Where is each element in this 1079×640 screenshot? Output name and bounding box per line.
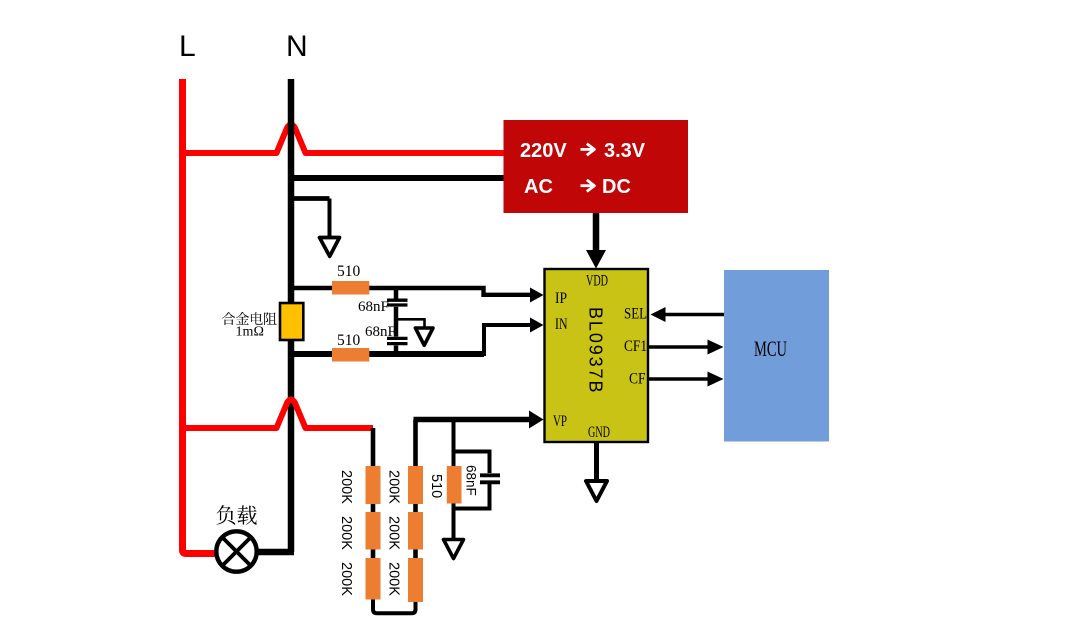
MCU box (724, 270, 829, 442)
capacitor C3 68nF plates (480, 475, 500, 482)
arrow CF1 chip to MCU (649, 345, 709, 349)
arrow into IP (530, 288, 544, 303)
shunt resistor alloy 1mOhm (280, 303, 303, 340)
wire black from load to N (257, 549, 294, 556)
arrow into IN (530, 318, 544, 333)
wire filter ground stub (396, 319, 425, 327)
svg-text:L: L (179, 30, 196, 63)
svg-text:IP: IP (555, 290, 567, 307)
label alloy resistor (hand glyphs) (222, 312, 277, 325)
svg-text:200K: 200K (338, 470, 354, 504)
wire red top horizontal L to AC-DC box with hop over N (180, 125, 504, 154)
svg-text:CF: CF (629, 371, 646, 388)
svg-text:200K: 200K (338, 516, 354, 550)
wire black N to AC-DC box (291, 175, 504, 181)
svg-text:510: 510 (428, 474, 444, 498)
capacitor C1 68nF plates (387, 300, 408, 305)
svg-text:VDD: VDD (586, 273, 608, 290)
svg-text:MCU: MCU (754, 336, 787, 361)
svg-text:510: 510 (337, 332, 361, 349)
svg-text:VP: VP (553, 413, 567, 430)
svg-text:68nF: 68nF (464, 465, 479, 496)
svg-text:DC: DC (602, 176, 631, 198)
svg-text:N: N (286, 30, 308, 63)
svg-text:CF1: CF1 (624, 338, 647, 355)
wire IN branch from N through R2 (291, 351, 484, 357)
wire filter vertical with caps junction (394, 288, 399, 299)
load lamp symbol (216, 531, 256, 571)
wire 510 branch vertical (452, 420, 456, 467)
svg-text:IN: IN (555, 316, 568, 333)
wire IN step up to chip (484, 325, 531, 356)
ground at filter (415, 328, 433, 345)
resistor R4 200K (366, 512, 381, 550)
arrow CF chip to MCU (649, 377, 709, 381)
svg-text:SEL: SEL (624, 306, 647, 323)
wire bottom U connecting chains (373, 595, 416, 613)
ground at N stub (320, 238, 340, 257)
arrow VDD supply (593, 213, 600, 252)
svg-text:200K: 200K (386, 516, 402, 550)
wire N ground stub (293, 196, 330, 201)
chip BL0937B (545, 269, 649, 442)
svg-text:220V: 220V (520, 140, 567, 162)
ground at chip GND (586, 481, 607, 501)
wire 510 to ground (452, 503, 456, 539)
wire L line red vertical with bottom bend to load (183, 79, 217, 554)
svg-text:510: 510 (337, 263, 361, 280)
wire VP line (414, 417, 531, 422)
wire GND below chip (594, 442, 599, 480)
wire IP branch from N through R1 to chip (291, 288, 531, 295)
resistor R1 510 (332, 281, 369, 295)
capacitor C2 68nF plates (387, 338, 408, 343)
wire cap 68nF branch (454, 452, 490, 509)
resistor R5 200K (366, 558, 381, 600)
svg-text:3.3V: 3.3V (604, 140, 646, 162)
svg-text:200K: 200K (386, 562, 402, 596)
svg-text:68nF: 68nF (365, 324, 396, 340)
wire N line black vertical (288, 79, 295, 552)
svg-text:1mΩ: 1mΩ (236, 325, 265, 340)
resistor R9 510 vertical (447, 466, 462, 504)
AC-DC converter box (504, 120, 689, 213)
svg-text:200K: 200K (338, 562, 354, 596)
arrow into VP (529, 411, 544, 429)
resistor R6 200K (408, 466, 423, 504)
svg-text:68nF: 68nF (358, 299, 389, 315)
wire left 200K chain vertical (371, 428, 376, 597)
wire right 200K chain vertical (413, 420, 418, 601)
svg-text:GND: GND (588, 424, 610, 441)
svg-text:AC: AC (524, 176, 553, 198)
resistor R2 510 (332, 348, 369, 362)
resistor R7 200K (408, 512, 423, 550)
svg-text:BL0937B: BL0937B (586, 307, 606, 394)
ground at VP divider (444, 540, 464, 559)
svg-text:200K: 200K (386, 470, 402, 504)
resistor R3 200K (366, 466, 381, 504)
arrow SEL from MCU to chip (663, 313, 724, 317)
resistor R8 200K (408, 558, 423, 602)
wire red lower horizontal to divider chain with hop over N (180, 400, 373, 429)
label load (hand glyphs) (217, 505, 257, 525)
